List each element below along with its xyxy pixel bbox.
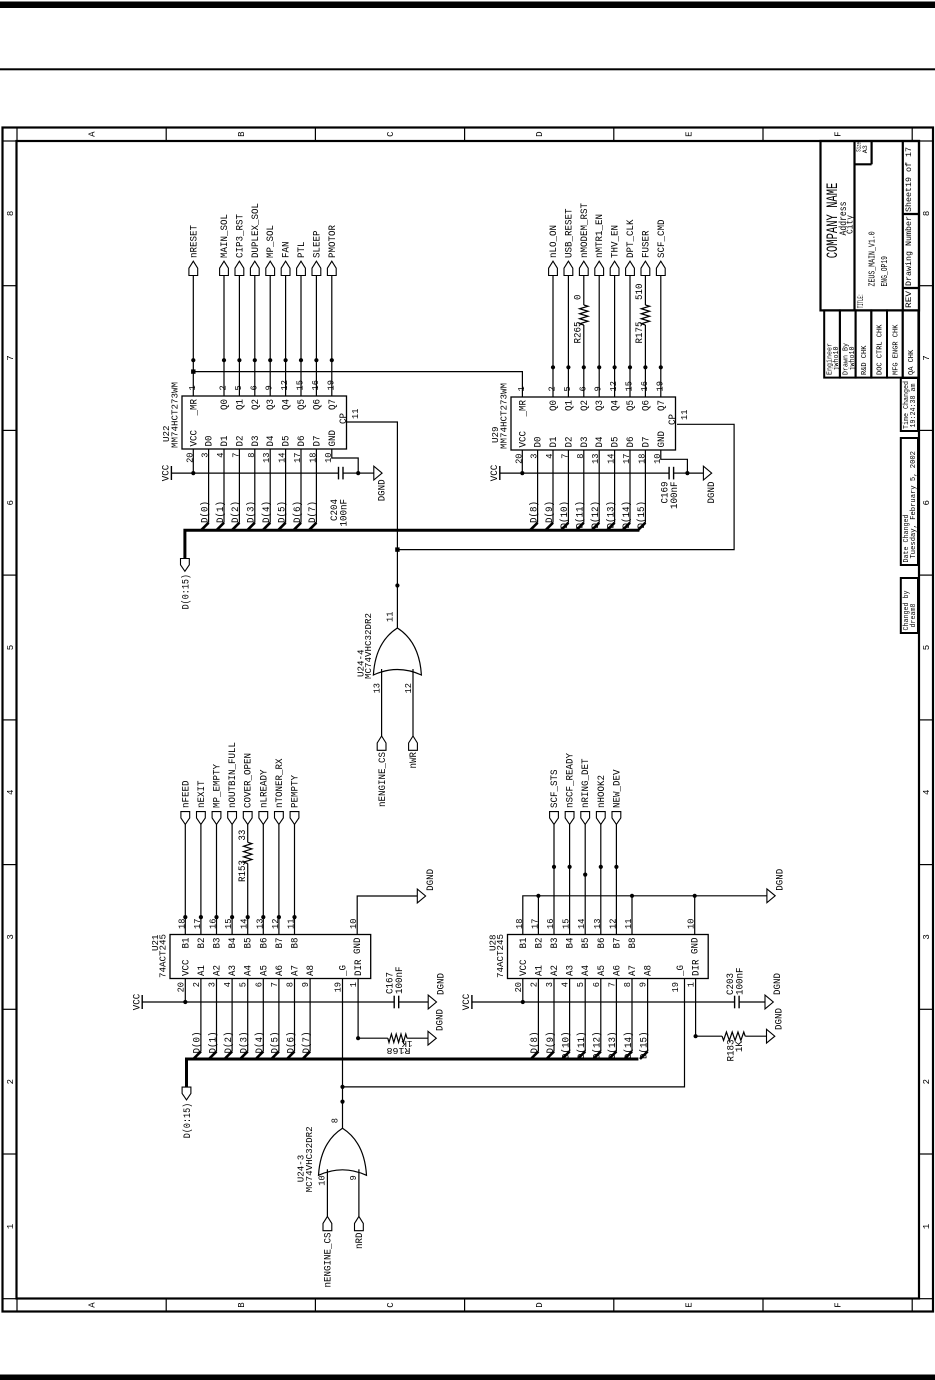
svg-text:A5: A5 (259, 965, 270, 976)
svg-text:D5: D5 (611, 437, 622, 448)
svg-text:D(14): D(14) (623, 1032, 635, 1060)
frame row letters A-F (88, 131, 844, 1308)
resistor R183 1K (722, 1032, 746, 1062)
ground DGND below C167 (428, 973, 447, 1009)
wire U28 B3 to SCF_STS port (553, 824, 555, 934)
port D(0:15) upper (181, 559, 193, 610)
U22 reference label (161, 425, 172, 442)
wire U24-3 output to G net (342, 1087, 344, 1128)
label D(1) (215, 501, 227, 523)
junction VCC pin U22 (191, 471, 195, 475)
resistor R168 1K (386, 1034, 412, 1056)
svg-text:A8: A8 (306, 965, 317, 976)
svg-text:Q2: Q2 (580, 400, 591, 411)
svg-text:City: City (845, 215, 856, 234)
port PTL (297, 242, 308, 276)
svg-text:D(5): D(5) (270, 1032, 282, 1054)
label D(15) lower (638, 1032, 650, 1060)
label D(6) lower (285, 1032, 297, 1054)
svg-text:D(10): D(10) (559, 501, 571, 529)
port PEMPTY (290, 775, 301, 824)
node on nMODEM_RST wire (582, 365, 586, 369)
svg-text:D3: D3 (580, 437, 591, 448)
port FUSER (641, 231, 652, 276)
wire U22 Q2 to DUPLEX_SOL port (254, 276, 256, 397)
svg-text:3: 3 (6, 934, 16, 939)
svg-text:D1: D1 (549, 437, 560, 448)
wire U21 A1 with bus rip D(0) (193, 979, 201, 1060)
node on DPT_CLK wire (628, 365, 632, 369)
svg-text:R265: R265 (574, 322, 585, 344)
svg-text:DPT_CLK: DPT_CLK (626, 219, 637, 258)
wire U21 A4 with bus rip D(3) (240, 979, 248, 1060)
wire VCC rail U22 (171, 472, 338, 474)
svg-text:DGND: DGND (378, 479, 389, 501)
svg-text:C: C (386, 131, 396, 137)
label D(9) lower (545, 1032, 557, 1054)
svg-text:1K: 1K (401, 1038, 412, 1049)
title block rev cell (904, 290, 914, 308)
svg-text:REV: REV (904, 290, 914, 308)
svg-text:A6: A6 (275, 965, 286, 976)
wire U28 B2 stub (537, 896, 539, 935)
svg-text:VCC: VCC (519, 960, 530, 977)
U21 pin numbers (176, 919, 359, 993)
svg-text:D(14): D(14) (621, 501, 633, 529)
svg-text:D7: D7 (641, 437, 652, 448)
svg-text:F: F (834, 131, 844, 136)
svg-text:PMOTOR: PMOTOR (328, 225, 339, 258)
svg-text:GND: GND (657, 431, 668, 448)
svg-text:Q1: Q1 (235, 399, 246, 410)
label D(0) lower (192, 1032, 204, 1054)
svg-text:11: 11 (386, 612, 396, 622)
svg-text:E: E (684, 1302, 694, 1307)
svg-text:_G: _G (676, 965, 687, 977)
svg-text:_MR: _MR (189, 399, 200, 416)
port MAIN_SOL (220, 214, 231, 276)
svg-text:A4: A4 (244, 965, 255, 976)
svg-text:8: 8 (6, 211, 16, 216)
svg-text:PEMPTY: PEMPTY (291, 775, 302, 808)
svg-text:B2: B2 (197, 938, 208, 949)
node on FUSER wire (643, 365, 647, 369)
node on nTONER_RX wire (277, 915, 281, 919)
svg-text:nEXIT: nEXIT (197, 781, 208, 809)
svg-text:DGND: DGND (773, 973, 784, 995)
svg-text:R153: R153 (238, 860, 249, 882)
IC U22 MM74HCT273WM box (182, 396, 347, 449)
svg-text:D(4): D(4) (254, 1032, 266, 1054)
power VCC symbol for U21 (132, 994, 143, 1011)
capacitor C203 100nF (726, 968, 747, 1009)
label D(11) (575, 501, 587, 529)
wire U21 A7 with bus rip D(6) (287, 979, 295, 1060)
svg-text:Q4: Q4 (282, 399, 293, 410)
wire U29 D7 with bus rip D(15) (638, 450, 646, 530)
svg-text:100nF: 100nF (395, 967, 406, 995)
svg-text:USB_RESET: USB_RESET (564, 209, 575, 259)
svg-text:B4: B4 (566, 938, 577, 949)
wire U28 A8 with bus rip D(15) (640, 979, 648, 1060)
label D(2) lower (223, 1032, 235, 1054)
svg-text:nTONER_RX: nTONER_RX (275, 759, 286, 809)
node on U24-3 output (340, 1100, 344, 1104)
U28 reference label (488, 934, 499, 951)
svg-text:D(0): D(0) (199, 501, 211, 523)
node on SLEEP wire (314, 358, 318, 362)
wire U29 Q0 to nLO_ON port (552, 276, 554, 398)
port SCF_STS (550, 770, 561, 825)
title block changed by cell (901, 578, 918, 633)
port nWR (409, 736, 418, 750)
junction B2 DGND (536, 894, 540, 898)
label D(12) (590, 501, 602, 529)
junction VCC pin U21 (183, 1000, 187, 1004)
power VCC symbol for U28 (462, 994, 473, 1011)
svg-text:Q4: Q4 (611, 400, 622, 411)
svg-text:A: A (88, 1302, 98, 1308)
svg-text:0: 0 (574, 295, 585, 301)
svg-text:jwho10: jwho10 (849, 347, 857, 371)
svg-text:GND: GND (353, 938, 364, 955)
svg-text:FAN: FAN (282, 242, 293, 259)
wire U29 D0 with bus rip D(8) (530, 450, 538, 530)
wire U29 CP net branch (397, 424, 734, 549)
wire U24-3 input pin 10 (326, 1169, 328, 1216)
ground DGND below C203 (765, 973, 784, 1009)
label D(2) (230, 501, 242, 523)
port MP_SOL (266, 225, 277, 276)
title block address (838, 202, 850, 236)
port CIP3_RST (235, 214, 246, 276)
wire U28 B8 stub (631, 896, 633, 935)
wire U28 A7 with bus rip D(14) (624, 979, 632, 1060)
junction U21 DIR (356, 1036, 360, 1040)
svg-text:A6: A6 (612, 965, 623, 976)
U29 reference label (490, 426, 501, 443)
node on SCF_CMD wire (659, 365, 663, 369)
wire U28 DIR pin to R183 (696, 979, 723, 1037)
port NEW_DEV (612, 769, 623, 825)
wire U28 A4 with bus rip D(11) (578, 979, 586, 1060)
wire G net to U28 (343, 979, 685, 1087)
svg-text:1: 1 (922, 1224, 932, 1229)
port nLO_ON (549, 225, 560, 276)
svg-text:MAIN_SOL: MAIN_SOL (220, 214, 231, 258)
svg-text:nOUTBIN_FULL: nOUTBIN_FULL (228, 742, 239, 808)
wire U21 B1 to nFEED port (184, 824, 186, 934)
wire U29 D4 with bus rip D(12) (592, 450, 600, 530)
svg-text:D4: D4 (595, 437, 606, 448)
svg-text:D(8): D(8) (528, 501, 540, 523)
wire C167 to DGND (399, 1001, 429, 1003)
svg-text:4: 4 (6, 790, 16, 795)
title block drawing number cell (904, 216, 914, 286)
wire C204 to DGND (343, 472, 374, 474)
wire U29 D6 with bus rip D(14) (622, 450, 630, 530)
title block checker cells (824, 310, 918, 377)
label D(7) (307, 501, 319, 523)
svg-text:SCF_STS: SCF_STS (550, 770, 561, 809)
svg-text:MFG ENGR CHK: MFG ENGR CHK (892, 324, 900, 375)
label nWR (409, 752, 420, 769)
capacitor C169 100nF (661, 467, 682, 509)
svg-text:D0: D0 (205, 436, 216, 447)
svg-text:D(6): D(6) (285, 1032, 297, 1054)
port DUPLEX_SOL (250, 203, 261, 276)
port DPT_CLK (626, 219, 637, 276)
svg-text:A1: A1 (534, 965, 545, 976)
svg-text:nFEED: nFEED (181, 781, 192, 809)
svg-text:SLEEP: SLEEP (312, 231, 323, 259)
wire U24-3 input pin 9 (358, 1169, 360, 1216)
svg-text:VCC: VCC (189, 430, 200, 447)
node on nSCF_READY wire (568, 865, 572, 869)
svg-text:D5: D5 (282, 436, 293, 447)
node on MP_SOL wire (268, 358, 272, 362)
svg-text:D(1): D(1) (207, 1032, 219, 1054)
svg-text:D(12): D(12) (590, 501, 602, 529)
svg-text:D6: D6 (297, 436, 308, 447)
svg-text:DIR: DIR (354, 960, 365, 977)
svg-text:4: 4 (922, 790, 932, 795)
svg-text:74ACT245: 74ACT245 (495, 934, 506, 978)
svg-text:D2: D2 (235, 436, 246, 447)
svg-text:A7: A7 (291, 965, 302, 976)
svg-text:NEW_DEV: NEW_DEV (612, 769, 623, 808)
svg-text:E: E (684, 131, 694, 136)
or-gate U24-4 MC74VHC32DR2 (373, 628, 421, 675)
svg-text:A8: A8 (644, 965, 655, 976)
label D(4) (261, 501, 273, 523)
svg-text:D4: D4 (266, 436, 277, 447)
node on MP_EMPTY wire (214, 915, 218, 919)
wire U21 B7 to nTONER_RX port (278, 824, 280, 934)
U29 pin numbers (514, 381, 690, 464)
wire U21 B3 to MP_EMPTY port (216, 824, 218, 934)
node on THV_EN wire (613, 365, 617, 369)
wire U22 D5 with bus rip D(5) (278, 449, 286, 530)
wire U21 B8 to PEMPTY port (294, 824, 296, 934)
svg-text:nENGINE_CS: nENGINE_CS (324, 1233, 335, 1288)
wire U21 A8 with bus rip D(7) (303, 979, 311, 1060)
svg-text:100nF: 100nF (736, 968, 747, 996)
svg-text:Q7: Q7 (657, 400, 668, 411)
svg-text:A: A (88, 131, 98, 137)
svg-text:74ACT245: 74ACT245 (158, 934, 169, 978)
title block size (856, 142, 870, 153)
svg-text:GND: GND (328, 430, 339, 447)
node on nEXIT wire (199, 915, 203, 919)
svg-text:7: 7 (922, 355, 932, 360)
svg-text:nRD: nRD (355, 1233, 366, 1250)
svg-text:19:24:38 am: 19:24:38 am (910, 384, 918, 428)
svg-text:A3: A3 (566, 965, 577, 976)
svg-text:C: C (386, 1302, 396, 1308)
wire U29 Q3 to nMTR1_EN port (598, 276, 600, 398)
ground DGND for U28 B side (767, 869, 787, 903)
svg-text:Q6: Q6 (641, 400, 652, 411)
svg-text:A3: A3 (228, 965, 239, 976)
svg-text:D6: D6 (626, 437, 637, 448)
wire C169 to DGND (674, 472, 704, 474)
port nRD (355, 1216, 364, 1230)
U24-3 pin numbers (318, 1118, 360, 1186)
label D(3) lower (239, 1032, 251, 1054)
label D(15) (636, 501, 648, 529)
svg-text:B: B (237, 131, 247, 137)
U21 part number label (158, 934, 169, 978)
node on COVER_OPEN wire (246, 915, 250, 919)
label D(5) lower (270, 1032, 282, 1054)
svg-text:nENGINE_CS: nENGINE_CS (378, 752, 389, 807)
wire U21 B4 to nOUTBIN_FULL port (231, 824, 233, 934)
label D(13) (605, 501, 617, 529)
svg-text:TITLE:: TITLE: (856, 294, 866, 309)
wire U28 B4 to nSCF_READY port (569, 824, 571, 934)
svg-text:D3: D3 (251, 436, 262, 447)
wire nRESET to U29 _MR (193, 372, 522, 397)
port nOUTBIN_FULL (228, 742, 239, 824)
label D(9) (544, 501, 556, 523)
wire U29 D5 with bus rip D(13) (607, 450, 615, 530)
svg-text:COVER_OPEN: COVER_OPEN (244, 753, 255, 808)
wire U29 VCC pin stub (521, 450, 523, 473)
svg-text:Q1: Q1 (564, 400, 575, 411)
label D(7) lower (301, 1032, 313, 1054)
U24-4 part number label (363, 613, 374, 679)
wire U28 A6 with bus rip D(13) (609, 979, 617, 1060)
node on DUPLEX_SOL wire (253, 358, 257, 362)
svg-text:D(2): D(2) (223, 1032, 235, 1054)
resistor R265 0 (574, 295, 588, 344)
wire U21 B6 to nLREADY port (262, 824, 264, 934)
svg-text:D7: D7 (312, 436, 323, 447)
svg-text:nRING_DET: nRING_DET (581, 759, 592, 809)
svg-text:B4: B4 (228, 938, 239, 949)
svg-text:D0: D0 (534, 437, 545, 448)
svg-text:VCC: VCC (462, 994, 473, 1011)
wire U24-4 input pin 13 (381, 669, 383, 736)
ground DGND below R168 (428, 1009, 447, 1045)
port COVER_OPEN (243, 753, 254, 824)
wire U29 Q4 to THV_EN port (614, 276, 616, 398)
U21 reference label (150, 934, 161, 951)
svg-text:B7: B7 (275, 938, 286, 949)
svg-text:A2: A2 (550, 965, 561, 976)
wire U22 D3 with bus rip D(3) (247, 449, 255, 530)
svg-text:D(4): D(4) (261, 501, 273, 523)
svg-text:2: 2 (6, 1079, 16, 1084)
power VCC symbol for U22 (162, 465, 173, 482)
U22 pin numbers (185, 380, 361, 463)
wire U22 Q6 to SLEEP port (315, 276, 317, 397)
node on PTL wire (299, 358, 303, 362)
svg-text:B8: B8 (628, 938, 639, 949)
node on CP wire (395, 583, 399, 587)
U29 part number label (499, 383, 510, 449)
label D(10) (559, 501, 571, 529)
wire U22 Q0 to MAIN_SOL port (223, 276, 225, 397)
wire U29 Q7 to SCF_CMD port (660, 276, 662, 398)
svg-text:GND: GND (691, 938, 702, 955)
svg-text:1: 1 (517, 386, 527, 391)
node on nLREADY wire (261, 915, 265, 919)
label D(4) lower (254, 1032, 266, 1054)
U28 pin numbers (514, 919, 697, 993)
svg-text:VCC: VCC (162, 465, 173, 482)
U28 pin names (519, 938, 703, 977)
junction nRESET net (191, 369, 195, 373)
svg-text:8: 8 (331, 1118, 341, 1123)
resistor R153 33 (238, 830, 252, 882)
svg-text:Q5: Q5 (626, 400, 637, 411)
node on nMTR1_EN wire (597, 365, 601, 369)
junction VCC pin U29 (520, 471, 524, 475)
svg-text:B7: B7 (612, 938, 623, 949)
junction U28 DIR (694, 1034, 698, 1038)
svg-text:D2: D2 (564, 437, 575, 448)
svg-text:D(7): D(7) (301, 1032, 313, 1054)
wire VCC rail U29 (500, 472, 669, 474)
title block outline (821, 141, 920, 310)
svg-text:nLREADY: nLREADY (259, 770, 270, 809)
IC U28 74ACT245 box (508, 935, 709, 979)
svg-text:B1: B1 (181, 938, 192, 949)
frame column numbers 1-8 (6, 211, 932, 1229)
svg-text:D(6): D(6) (292, 501, 304, 523)
wire U22 D2 with bus rip D(2) (232, 449, 240, 530)
svg-text:B5: B5 (581, 938, 592, 949)
svg-text:D(0:15): D(0:15) (182, 1103, 194, 1138)
svg-text:A1: A1 (197, 965, 208, 976)
svg-text:D(12): D(12) (592, 1032, 604, 1060)
node on MAIN_SOL wire (222, 358, 226, 362)
svg-text:_MR: _MR (518, 400, 529, 417)
svg-text:100nF: 100nF (340, 499, 351, 527)
port FAN (281, 242, 292, 276)
svg-text:A5: A5 (597, 965, 608, 976)
node on nOUTBIN_FULL wire (230, 915, 234, 919)
wire U28 B6 to nHOOK2 port (600, 824, 602, 934)
junction U22 GND net (356, 471, 360, 475)
svg-text:Q2: Q2 (251, 399, 262, 410)
port MP_EMPTY (212, 764, 223, 824)
svg-text:B2: B2 (534, 938, 545, 949)
svg-text:D(2): D(2) (230, 501, 242, 523)
wire U21 DIR pin to R168 (358, 979, 388, 1039)
port nRING_DET (581, 759, 592, 825)
svg-text:ENG_OP19: ENG_OP19 (879, 256, 890, 287)
svg-text:5: 5 (922, 645, 932, 650)
page rule top thick (0, 2, 935, 9)
wire U22 D1 with bus rip D(1) (216, 449, 224, 530)
label D(5) (276, 501, 288, 523)
page rule bottom thick (0, 1375, 935, 1380)
svg-text:DGND: DGND (775, 1008, 786, 1030)
svg-text:B6: B6 (259, 938, 270, 949)
wire U21 A6 with bus rip D(5) (271, 979, 279, 1060)
wire U29 D3 with bus rip D(11) (576, 450, 584, 530)
svg-text:Q3: Q3 (266, 399, 277, 410)
node on USB_RESET wire (566, 365, 570, 369)
svg-text:D(7): D(7) (307, 501, 319, 523)
svg-text:B1: B1 (519, 938, 530, 949)
port D(0:15) lower (182, 1087, 194, 1138)
svg-text:VCC: VCC (518, 431, 529, 448)
svg-text:A4: A4 (581, 965, 592, 976)
